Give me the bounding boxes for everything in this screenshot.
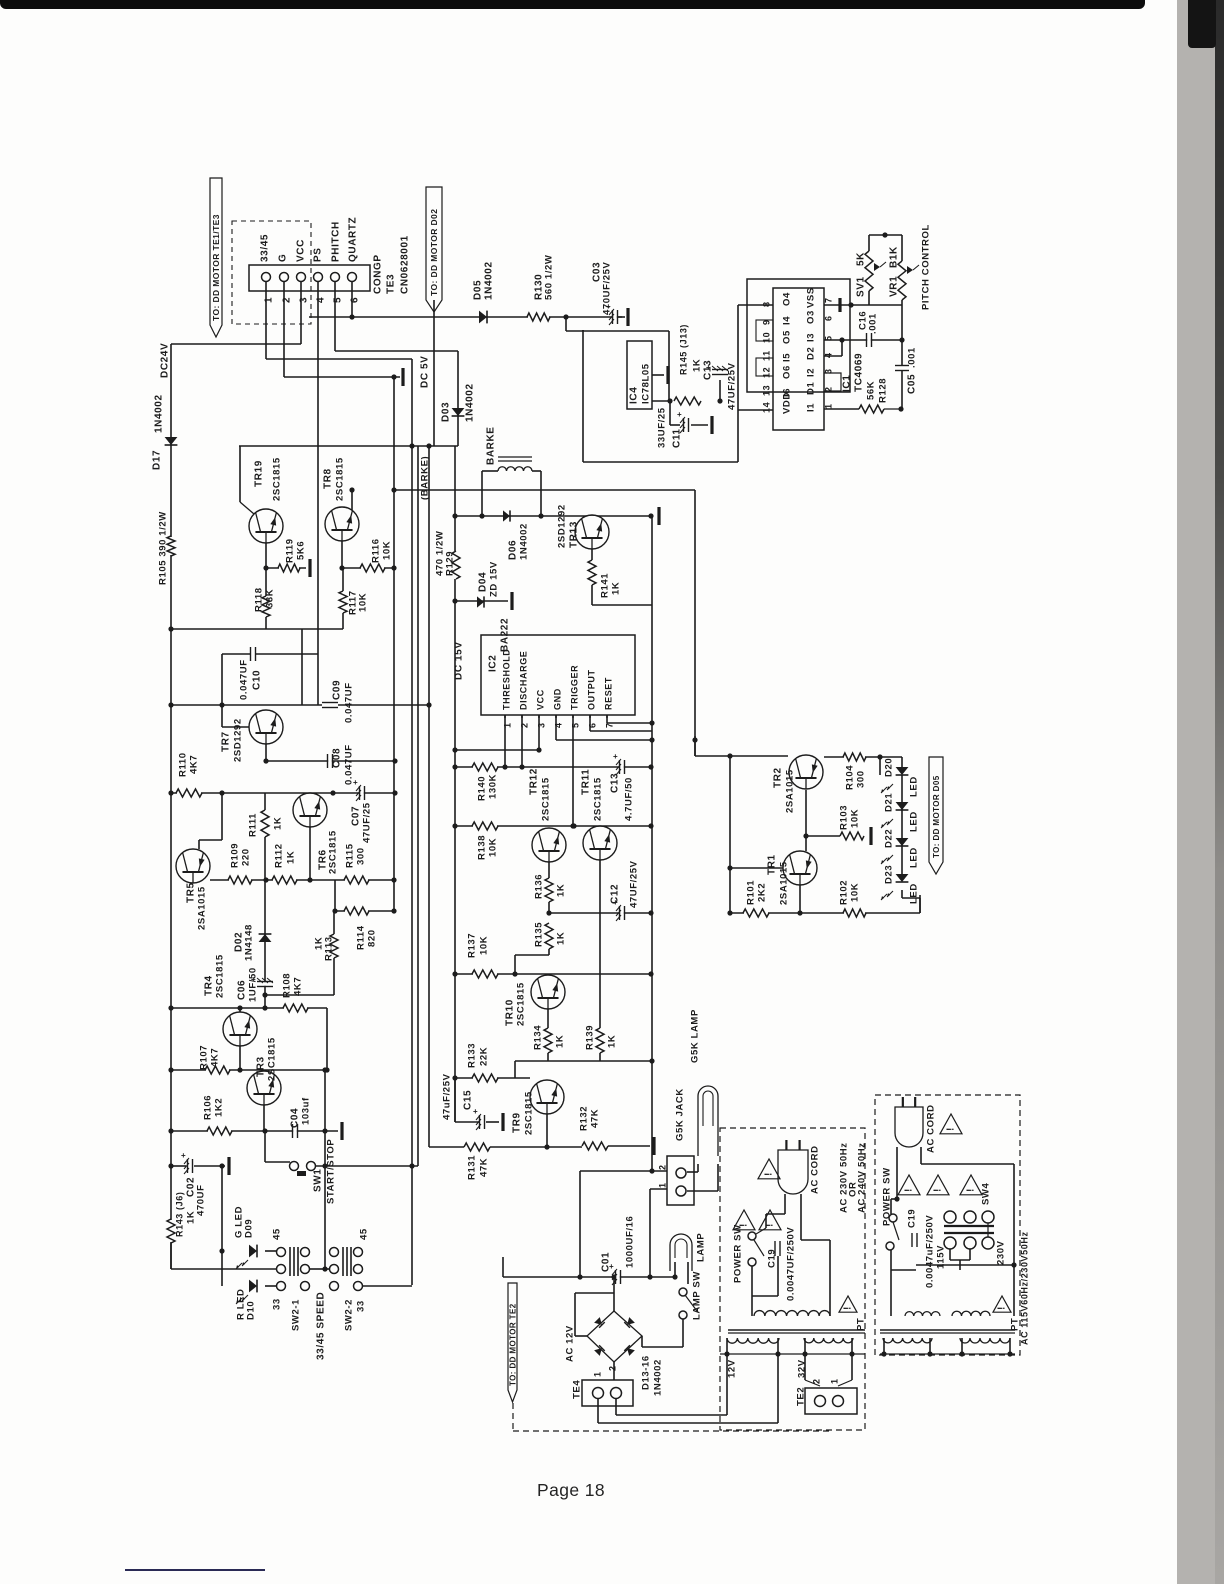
svg-text:56K: 56K [866,381,877,400]
svg-text:2SA1015: 2SA1015 [785,769,796,813]
svg-text:1: 1 [658,1182,668,1188]
svg-text:1K: 1K [556,932,567,945]
svg-text:SW4: SW4 [981,1182,992,1205]
svg-text:11: 11 [762,350,772,361]
svg-text:R115: R115 [345,843,356,868]
svg-text:8: 8 [762,301,772,307]
svg-text:R134: R134 [533,1025,544,1050]
svg-text:2SC1815: 2SC1815 [272,457,283,501]
svg-text:R113: R113 [324,936,335,961]
svg-text:33/45 SPEED: 33/45 SPEED [316,1292,327,1360]
svg-text:GND: GND [553,688,563,710]
svg-text:5: 5 [571,722,581,728]
svg-text:2: 2 [520,722,530,728]
svg-text:START/STOP: START/STOP [326,1139,337,1204]
svg-text:IC1: IC1 [842,375,853,392]
svg-text:1: 1 [264,297,275,303]
svg-text:R133: R133 [467,1043,478,1068]
svg-text:VCC: VCC [536,689,546,710]
svg-text:1K: 1K [286,851,297,864]
svg-text:AC 115V60Hz/230V50Hz: AC 115V60Hz/230V50Hz [1020,1231,1030,1345]
svg-text:1N4148: 1N4148 [244,924,255,961]
svg-text:2K2: 2K2 [757,883,768,902]
svg-text:1UF/50: 1UF/50 [248,967,259,1002]
svg-text:R109: R109 [230,843,241,868]
svg-text:6: 6 [588,722,598,728]
svg-text:R114: R114 [356,925,367,950]
svg-text:47UF/25V: 47UF/25V [629,860,640,908]
svg-text:4K7: 4K7 [189,755,200,774]
svg-text:VR1: VR1 [889,276,900,297]
svg-text:5K6: 5K6 [296,541,307,560]
svg-text:R106: R106 [203,1095,214,1120]
svg-text:3: 3 [537,722,547,728]
svg-text:300: 300 [356,847,367,865]
svg-text:9: 9 [762,319,772,325]
svg-text:22K: 22K [479,1047,490,1066]
svg-text:2SC1815: 2SC1815 [335,457,346,501]
svg-text:4: 4 [554,722,564,728]
svg-text:470UF: 470UF [196,1184,207,1216]
svg-text:BA222: BA222 [500,618,511,652]
svg-text:2SA1015: 2SA1015 [779,861,790,905]
svg-text:R129: R129 [445,551,456,576]
svg-text:D1: D1 [806,382,817,395]
svg-text:TR1: TR1 [767,854,778,875]
svg-text:1N4002: 1N4002 [154,394,165,433]
svg-text:33UF/25: 33UF/25 [657,407,668,448]
svg-text:R104: R104 [845,765,856,790]
svg-text:PS: PS [313,247,324,262]
svg-text:TR3: TR3 [256,1056,267,1077]
svg-text:10: 10 [762,332,772,343]
svg-text:DC24V: DC24V [160,343,171,378]
svg-text:470UF/25V: 470UF/25V [602,261,613,315]
svg-text:2: 2 [812,1378,822,1384]
svg-text:C01: C01 [601,1252,612,1272]
svg-text:2SC1815: 2SC1815 [328,830,339,874]
svg-text:I1: I1 [806,403,817,412]
svg-text:O4: O4 [782,292,793,306]
svg-text:2SC1815: 2SC1815 [524,1091,535,1135]
svg-text:O3: O3 [806,310,817,324]
svg-text:2: 2 [282,297,293,303]
svg-text:47UF/25V: 47UF/25V [727,362,738,410]
svg-text:45: 45 [359,1228,370,1240]
svg-text:LED: LED [909,776,920,797]
svg-text:D09: D09 [244,1219,255,1238]
svg-text:R110: R110 [178,752,189,777]
svg-text:POWER SW: POWER SW [733,1224,744,1283]
svg-text:7: 7 [824,297,834,303]
svg-text:2: 2 [824,386,834,392]
svg-text:OUTPUT: OUTPUT [587,669,597,710]
svg-text:G5K LAMP: G5K LAMP [690,1009,701,1063]
svg-text:TR2: TR2 [773,767,784,788]
svg-text:AC 240V 50Hz: AC 240V 50Hz [857,1142,868,1213]
svg-text:C19: C19 [907,1209,918,1228]
svg-text:VCC: VCC [296,239,307,262]
svg-text:1N4002: 1N4002 [653,1359,664,1396]
svg-text:47UF/25: 47UF/25 [362,802,373,843]
svg-text:1N4002: 1N4002 [519,523,530,560]
svg-text:47K: 47K [590,1109,601,1128]
svg-text:4K7: 4K7 [293,977,304,996]
svg-text:1N4002: 1N4002 [484,261,495,300]
svg-text:D05: D05 [473,280,484,300]
svg-text:C10: C10 [252,670,263,690]
svg-text:1K: 1K [692,359,703,372]
svg-text:2SC1815: 2SC1815 [593,777,604,821]
svg-text:6: 6 [350,297,361,303]
svg-text:D13-16: D13-16 [641,1355,652,1390]
svg-text:TR8: TR8 [323,468,334,489]
svg-text:TR9: TR9 [512,1112,523,1133]
svg-text:R111: R111 [248,813,259,837]
svg-text:R116: R116 [371,538,382,563]
svg-text:1K: 1K [555,1035,566,1048]
svg-text:R112: R112 [274,843,285,868]
svg-text:SV1: SV1 [856,276,867,297]
svg-text:R140: R140 [477,776,488,801]
svg-text:13: 13 [762,385,772,396]
svg-text:1K2: 1K2 [214,1098,225,1117]
svg-text:C05: C05 [907,374,918,394]
svg-text:POWER SW: POWER SW [882,1167,893,1226]
svg-text:AC 12V: AC 12V [565,1325,576,1362]
svg-text:12: 12 [762,367,772,378]
svg-text:R119: R119 [285,538,296,563]
svg-text:C06: C06 [237,980,248,1000]
svg-text:47K: 47K [479,1158,490,1177]
svg-text:RESET: RESET [604,677,614,710]
svg-text:0.047UF: 0.047UF [344,682,355,723]
svg-text:300: 300 [856,770,867,788]
svg-text:2SD1292: 2SD1292 [557,504,568,548]
svg-text:R131: R131 [467,1155,478,1180]
svg-text:45: 45 [272,1228,283,1240]
svg-text:TR11: TR11 [581,769,592,795]
svg-text:3: 3 [299,297,310,303]
svg-text:C04: C04 [290,1108,301,1128]
svg-text:R128: R128 [878,378,889,403]
svg-text:1N4002: 1N4002 [465,383,476,422]
svg-text:LED: LED [909,847,920,868]
svg-text:!: ! [904,1189,915,1192]
svg-text:+: + [353,778,358,787]
svg-text:1: 1 [503,722,513,728]
svg-text:LED: LED [909,883,920,904]
svg-text:B1K: B1K [889,246,900,268]
svg-text:820: 820 [367,929,378,947]
svg-text:R132: R132 [579,1106,590,1131]
svg-text:130K: 130K [488,774,499,799]
svg-text:D22: D22 [884,829,895,848]
svg-text:D21: D21 [884,793,895,812]
svg-text:IC2: IC2 [488,655,499,672]
svg-text:4: 4 [316,297,327,303]
svg-text:C15: C15 [463,1090,474,1110]
svg-text:TR19: TR19 [254,460,265,487]
svg-text:TE2: TE2 [796,1387,807,1406]
svg-text:R137: R137 [467,933,478,958]
svg-text:33K: 33K [265,589,276,608]
svg-text:TR4: TR4 [204,975,215,996]
svg-text:C08: C08 [332,748,343,768]
svg-text:PHITCH: PHITCH [331,221,342,262]
svg-text:G5K JACK: G5K JACK [675,1088,686,1141]
svg-text:ZD 15V: ZD 15V [489,561,500,597]
svg-text:+: + [473,1107,478,1116]
svg-text:!: ! [933,1189,944,1192]
svg-text:R105 390 1/2W: R105 390 1/2W [158,511,169,585]
svg-text:TR10: TR10 [505,999,516,1026]
svg-text:!: ! [997,1307,1008,1310]
svg-text:R118: R118 [254,587,265,612]
svg-text:R135: R135 [534,922,545,947]
svg-text:I2: I2 [806,368,817,377]
svg-text:I5: I5 [782,353,793,362]
svg-text:C12: C12 [610,884,621,904]
svg-text:1K: 1K [556,884,567,897]
svg-text:C07: C07 [351,806,362,826]
svg-text:AC CORD: AC CORD [926,1104,937,1153]
svg-text:D20: D20 [884,758,895,777]
svg-text:VDD: VDD [782,392,793,414]
svg-text:R101: R101 [746,880,757,905]
svg-text:Page 18: Page 18 [537,1480,605,1500]
svg-text:IC78L05: IC78L05 [641,363,652,404]
svg-text:!: ! [946,1128,957,1131]
svg-text:SW2-2: SW2-2 [344,1299,355,1331]
svg-text:!: ! [764,1173,775,1176]
svg-text:DISCHARGE: DISCHARGE [519,651,529,710]
svg-text:0.0047UF/250V: 0.0047UF/250V [786,1227,797,1301]
svg-text:2SC1815: 2SC1815 [541,777,552,821]
svg-text:R107: R107 [199,1045,210,1070]
svg-text:+: + [613,752,618,761]
svg-text:220: 220 [241,848,252,866]
svg-text:+: + [677,410,682,419]
svg-text:R141: R141 [600,573,611,598]
svg-text:D23: D23 [884,865,895,884]
svg-text:14: 14 [762,402,772,413]
svg-text:AC 230V 50Hz: AC 230V 50Hz [839,1142,850,1213]
svg-text:12V: 12V [727,1359,738,1378]
svg-text:IC4: IC4 [629,387,640,404]
svg-text:D06: D06 [508,540,519,560]
svg-text:TR12: TR12 [529,768,540,795]
svg-text:.001: .001 [907,347,918,368]
svg-text:D03: D03 [441,402,452,422]
svg-text:7: 7 [605,722,615,728]
svg-text:1K: 1K [273,817,284,830]
svg-text:!: ! [765,1224,776,1227]
svg-text:2SD1292: 2SD1292 [233,718,244,762]
svg-text:PITCH CONTROL: PITCH CONTROL [921,224,932,310]
svg-text:4K7: 4K7 [210,1048,221,1067]
svg-text:1: 1 [593,1371,603,1377]
svg-text:32V: 32V [797,1359,808,1378]
svg-text:VSS: VSS [806,287,817,308]
svg-text:4.7UF/50: 4.7UF/50 [624,777,635,821]
svg-text:TO: DD MOTOR TE2: TO: DD MOTOR TE2 [509,1303,518,1386]
svg-text:R108: R108 [282,973,293,998]
svg-text:DC 15V: DC 15V [454,641,465,680]
svg-text:R145 (J13): R145 (J13) [679,324,689,375]
svg-text:D2: D2 [806,347,817,360]
svg-text:115V: 115V [936,1245,947,1269]
svg-text:C13: C13 [703,360,714,380]
svg-text:SW1: SW1 [313,1169,324,1192]
svg-text:2SA1015: 2SA1015 [197,886,208,930]
svg-text:TR13: TR13 [569,521,580,548]
svg-text:1K: 1K [611,582,622,595]
svg-text:33: 33 [272,1298,283,1310]
svg-text:1000UF/16: 1000UF/16 [625,1216,636,1268]
svg-text:R139: R139 [585,1025,596,1050]
svg-text:AC CORD: AC CORD [810,1145,821,1194]
svg-text:10K: 10K [382,541,393,560]
svg-text:TO: DD MOTOR D02: TO: DD MOTOR D02 [429,209,439,296]
svg-text:2: 2 [608,1365,618,1371]
svg-text:TC4069: TC4069 [854,353,865,392]
svg-text:2: 2 [658,1164,668,1170]
svg-text:TO: DD MOTOR TE1/TE3: TO: DD MOTOR TE1/TE3 [211,214,221,321]
svg-text:C11: C11 [672,428,683,448]
svg-text:2SC1815: 2SC1815 [516,982,527,1026]
svg-text:TRIGGER: TRIGGER [570,665,580,710]
svg-text:230V: 230V [996,1240,1007,1265]
svg-text:QUARTZ: QUARTZ [348,217,359,262]
svg-text:TO: DD MOTOR D05: TO: DD MOTOR D05 [932,775,941,858]
svg-text:R103: R103 [839,805,850,830]
svg-text:O5: O5 [782,330,793,344]
svg-text:TR5: TR5 [186,882,197,903]
svg-text:CN0628001: CN0628001 [400,235,411,294]
svg-text:LAMP: LAMP [696,1233,707,1262]
svg-text:.001: .001 [868,313,879,334]
svg-text:47uF/25V: 47uF/25V [442,1073,453,1120]
svg-text:2SC1815: 2SC1815 [267,1037,278,1081]
svg-text:G: G [278,254,289,262]
svg-text:+: + [181,1151,186,1160]
svg-text:10K: 10K [488,838,499,857]
svg-text:THRESHOLD: THRESHOLD [502,649,512,710]
svg-text:10K: 10K [479,936,490,955]
svg-text:10K: 10K [358,593,369,612]
svg-text:5: 5 [333,297,344,303]
svg-text:1: 1 [830,1378,840,1384]
svg-text:2SC1815: 2SC1815 [215,954,226,998]
svg-text:5: 5 [824,335,834,341]
svg-text:(BARKE): (BARKE) [420,456,431,500]
svg-text:3: 3 [824,368,834,374]
svg-text:0.047UF: 0.047UF [239,659,250,700]
svg-text:BARKE: BARKE [486,426,497,465]
svg-text:TE4: TE4 [572,1380,583,1399]
svg-text:C13: C13 [610,773,621,793]
svg-text:5K: 5K [856,252,867,266]
svg-text:560 1/2W: 560 1/2W [544,255,555,300]
svg-text:1K: 1K [607,1035,618,1048]
svg-text:!: ! [966,1189,977,1192]
svg-text:D04: D04 [478,572,489,592]
svg-text:33: 33 [356,1300,367,1312]
svg-text:I4: I4 [782,316,793,325]
svg-text:0.0047uF/250V: 0.0047uF/250V [925,1215,936,1288]
svg-text:LAMP SW: LAMP SW [692,1271,703,1320]
svg-text:10K: 10K [850,883,861,902]
svg-text:I3: I3 [806,333,817,342]
svg-text:6: 6 [824,315,834,321]
svg-text:R143 (J6): R143 (J6) [175,1192,185,1237]
svg-text:D10: D10 [246,1301,257,1320]
svg-text:103uf: 103uf [301,1097,312,1125]
svg-text:TE3: TE3 [386,274,397,294]
svg-text:TR7: TR7 [221,731,232,752]
svg-text:O6: O6 [782,365,793,379]
svg-text:DC 5V: DC 5V [420,356,431,388]
svg-text:R138: R138 [477,835,488,860]
svg-text:SW2-1: SW2-1 [291,1299,302,1331]
svg-text:R102: R102 [839,880,850,905]
svg-text:1K: 1K [186,1211,197,1224]
svg-text:LED: LED [909,811,920,832]
svg-text:10K: 10K [850,809,861,828]
svg-text:PT: PT [856,1318,867,1331]
svg-text:C19: C19 [767,1249,778,1268]
svg-text:!: ! [843,1307,854,1310]
svg-text:CONGP: CONGP [373,254,384,294]
svg-text:D17: D17 [152,450,163,470]
svg-text:1: 1 [824,403,834,409]
svg-text:C09: C09 [332,680,343,700]
svg-text:4: 4 [824,352,834,358]
svg-text:R136: R136 [534,874,545,899]
svg-text:33/45: 33/45 [260,234,271,262]
